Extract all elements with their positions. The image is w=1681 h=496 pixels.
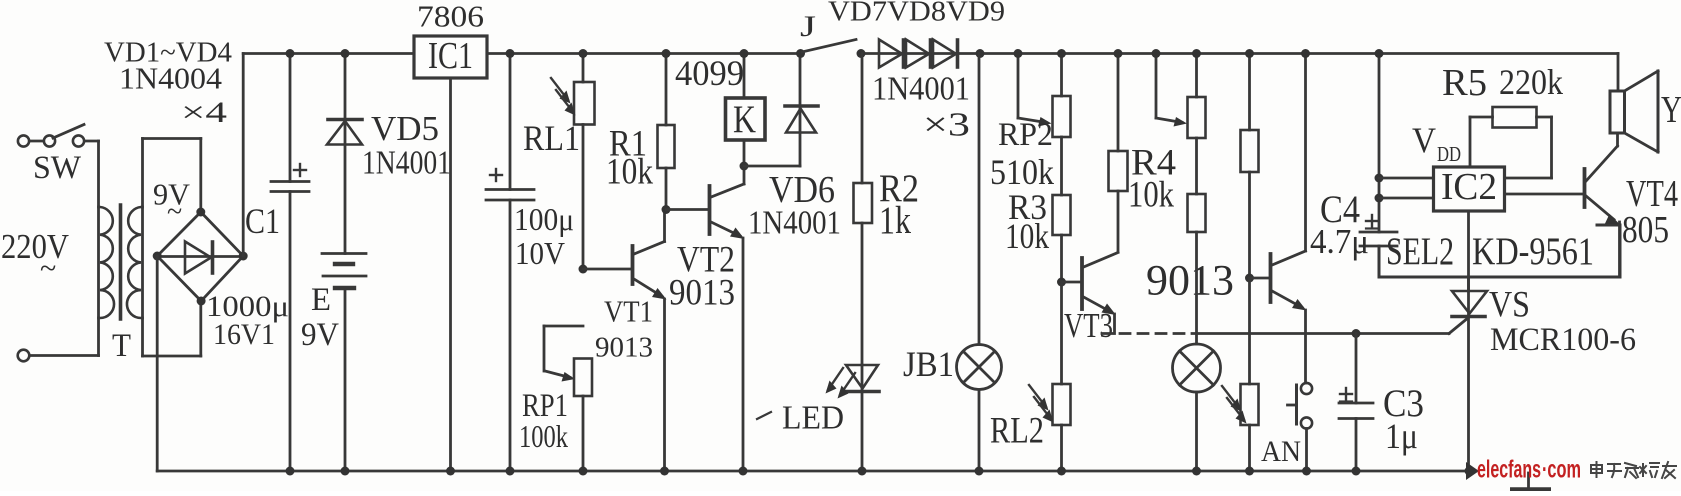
junction R3 bottom node	[1057, 278, 1066, 287]
capacitor 100u	[486, 54, 534, 472]
junction K top rail	[740, 49, 749, 58]
wire R1 node to VT2 base	[666, 208, 708, 211]
capacitor C1	[271, 54, 309, 472]
svg-text:VS: VS	[1489, 285, 1530, 326]
wire R5 right to IC2 pin	[1505, 117, 1552, 178]
label 9V secondary	[153, 177, 191, 228]
junction VT1 emitter bus	[660, 467, 669, 476]
svg-text:9V: 9V	[301, 317, 339, 353]
wire SW to transformer primary top	[85, 141, 99, 207]
label 10V	[515, 235, 565, 271]
wire K to VD6	[744, 165, 800, 168]
svg-text:4.7μ: 4.7μ	[1310, 222, 1369, 261]
label Y	[1661, 89, 1681, 131]
wire secondary top to bridge top	[143, 139, 201, 213]
battery E	[322, 254, 366, 472]
svg-text:SW: SW	[33, 150, 82, 186]
svg-text:E: E	[311, 282, 331, 318]
svg-text:1N4001: 1N4001	[748, 205, 841, 242]
label VT3	[1064, 306, 1113, 345]
label R4	[1131, 143, 1176, 184]
resistor R2	[854, 54, 873, 366]
junction C1 bus	[286, 467, 295, 476]
diode VD6	[785, 54, 818, 167]
label RL1	[523, 118, 580, 158]
label VD6 1N4001	[748, 205, 841, 242]
svg-text:220V: 220V	[1, 227, 69, 266]
LED	[826, 365, 880, 471]
junction bridge left vertex	[153, 252, 162, 261]
relay K box	[726, 54, 766, 167]
svg-text:JB1: JB1	[903, 344, 954, 384]
svg-text:~: ~	[167, 197, 182, 228]
svg-text:IC2: IC2	[1441, 166, 1497, 208]
junction RL2b bus	[1245, 467, 1254, 476]
svg-text:KD-9561: KD-9561	[1472, 230, 1594, 273]
junction bus right end	[1465, 462, 1480, 480]
wire R5 left to IC2 top	[1470, 117, 1493, 167]
transformer T primary winding	[99, 207, 115, 318]
label VT1	[604, 294, 653, 329]
label C3 plus	[1340, 388, 1352, 402]
label VDD	[1412, 120, 1461, 166]
label 100u	[514, 201, 574, 237]
junction IC2 pin lower	[1375, 194, 1384, 203]
wire IC2 output down	[1467, 211, 1470, 291]
speaker Y	[1610, 71, 1658, 152]
wire top rail	[243, 52, 1618, 55]
svg-text:T: T	[112, 328, 131, 364]
label R4 10k	[1128, 175, 1174, 216]
label VD6	[769, 169, 835, 211]
lamp channel2	[1173, 344, 1221, 471]
svg-text:1μ: 1μ	[1385, 416, 1418, 456]
transistor VT3	[1082, 253, 1118, 334]
label VD5 1N4001	[362, 145, 451, 182]
label VT2 9013	[669, 273, 735, 314]
svg-text:J: J	[800, 10, 816, 43]
label R5 220k	[1499, 62, 1563, 102]
junction pot2 wiper rail	[1152, 49, 1161, 58]
svg-text:K: K	[733, 98, 756, 141]
svg-text:805: 805	[1622, 209, 1669, 251]
svg-text:MCR100-6: MCR100-6	[1490, 322, 1636, 358]
svg-text:10k: 10k	[1128, 175, 1174, 216]
photoresistor channel2	[1222, 384, 1259, 471]
junction bridge top vertex	[196, 208, 205, 217]
label VT4 805	[1622, 209, 1669, 251]
junction K bottom node	[740, 162, 749, 171]
junction RP1 bus	[579, 467, 588, 476]
label C1 plus	[294, 164, 306, 176]
svg-text:VT1: VT1	[604, 294, 653, 329]
junction R4 top rail	[1114, 49, 1123, 58]
resistor R4	[1109, 54, 1128, 253]
svg-text:100k: 100k	[519, 418, 568, 454]
transformer T core	[119, 205, 123, 319]
svg-text:9013: 9013	[669, 273, 735, 314]
transistor VT2	[710, 166, 745, 471]
label 100u plus	[490, 169, 502, 181]
label RP2	[998, 117, 1053, 153]
transistor channel2	[1271, 54, 1307, 384]
diode VD8	[906, 40, 931, 68]
lamp JB1	[957, 54, 1002, 472]
label R5	[1442, 62, 1487, 104]
wire rail corner to speaker	[1617, 54, 1620, 92]
chip IC2 box	[1434, 166, 1505, 211]
label 7806	[417, 0, 484, 34]
label C1	[245, 201, 280, 241]
label R3	[1008, 187, 1047, 227]
resistor R3	[1053, 195, 1071, 282]
svg-text:220k: 220k	[1499, 62, 1563, 102]
label RP2 510k	[990, 152, 1054, 192]
label VD7VD8VD9	[828, 0, 1005, 27]
label VD chain x3	[923, 107, 970, 144]
wire IC2 pin lower	[1379, 197, 1434, 200]
label C4 value	[1310, 222, 1369, 261]
label VD5	[371, 109, 439, 148]
label RL2	[990, 411, 1044, 452]
svg-text:RP2: RP2	[998, 117, 1053, 153]
svg-text:1N4004: 1N4004	[119, 61, 223, 96]
label C3	[1383, 382, 1424, 425]
junction VT2 emitter bus	[739, 467, 748, 476]
label KD-9561	[1472, 230, 1594, 273]
svg-text:RL2: RL2	[990, 411, 1044, 452]
junction C1 top rail	[286, 49, 295, 58]
label VT2	[677, 240, 735, 281]
junction IC2 pin upper	[1375, 174, 1384, 183]
wire bottom bus	[157, 470, 1469, 473]
resistor R1	[658, 54, 675, 210]
watermark chinese glyphs	[1591, 462, 1676, 478]
wire secondary bottom to bridge bottom	[143, 301, 201, 356]
label VD chain 1N4001	[872, 71, 970, 108]
switch SW pivot circle 2	[44, 135, 55, 146]
label VS	[1489, 285, 1530, 326]
label AN	[1261, 435, 1301, 468]
resistor R5	[1493, 107, 1537, 128]
regulator IC1 7806 box	[414, 35, 487, 78]
junction RP2 wiper rail	[1014, 49, 1023, 58]
svg-text:9013: 9013	[1146, 258, 1234, 305]
svg-text:100μ: 100μ	[514, 201, 574, 237]
label C1 value 16V1	[213, 318, 275, 351]
diode VD7	[879, 40, 904, 68]
label E 9V	[301, 317, 339, 353]
svg-text:Y: Y	[1661, 89, 1681, 131]
junction transistor2 collector rail	[1301, 49, 1310, 58]
label 1N4004	[119, 61, 223, 96]
switch J lever	[802, 40, 856, 53]
label C3 1u	[1385, 416, 1418, 456]
transistor VT4	[1585, 133, 1621, 277]
photoresistor RL2	[1029, 384, 1071, 471]
wire R3 node to VT3 base	[1062, 281, 1081, 284]
junction res2 top rail	[1245, 49, 1254, 58]
wire base node to transistor2	[1250, 277, 1270, 280]
svg-text:IC1: IC1	[428, 35, 473, 77]
wire bridge plus up to rail	[242, 54, 245, 257]
svg-text:510k: 510k	[990, 152, 1054, 192]
wire RP1 wiper loop	[544, 326, 583, 382]
svg-text:elecfans: elecfans	[1477, 456, 1541, 484]
capacitor C4	[1360, 232, 1397, 249]
svg-text:RL1: RL1	[523, 118, 580, 158]
junction VD6 top rail	[796, 49, 805, 58]
wire SW terminal1 to pivot	[30, 140, 44, 143]
junction C3 bus	[1352, 467, 1361, 476]
svg-text:1N4001: 1N4001	[362, 145, 451, 182]
switch SW lever	[53, 125, 84, 139]
junction channel2 base node	[1245, 274, 1254, 283]
wire bridge minus down to bus	[156, 256, 159, 471]
svg-text:AN: AN	[1261, 435, 1301, 468]
junction gate line C3 node	[1352, 329, 1361, 338]
transformer T secondary winding	[127, 207, 143, 318]
photoresistor RL1	[551, 54, 595, 270]
switch SW terminal circle 1	[18, 135, 29, 146]
junction pot2 top rail	[1192, 49, 1201, 58]
potentiometer channel2	[1188, 54, 1206, 195]
ground symbol	[1512, 473, 1549, 489]
label VS MCR100-6	[1490, 322, 1636, 358]
svg-text:1N4001: 1N4001	[872, 71, 970, 108]
svg-text:10k: 10k	[1005, 216, 1049, 256]
label LED	[757, 400, 844, 437]
wire primary bottom to input terminal	[30, 318, 99, 356]
switch SW contact circle 3	[73, 135, 84, 146]
svg-text:9013: 9013	[595, 331, 653, 363]
wire gate line solid	[1197, 318, 1469, 334]
junction VD5 top rail	[341, 49, 350, 58]
label C4	[1320, 188, 1360, 231]
transformer T label	[112, 328, 131, 364]
svg-text:LED: LED	[782, 400, 844, 437]
junction VDD rail	[1375, 49, 1384, 58]
pushbutton AN	[1288, 383, 1313, 471]
label VT1 9013	[595, 331, 653, 363]
svg-text:4099: 4099	[675, 53, 744, 93]
junction RP2 top rail	[1057, 49, 1066, 58]
label E	[311, 282, 331, 318]
wire RL1 to VT1 base	[583, 268, 631, 271]
label VT3 9013	[1146, 258, 1234, 305]
svg-text:~: ~	[40, 252, 56, 285]
switch SW label	[33, 150, 82, 186]
wire base node down to RL2b	[1248, 278, 1251, 384]
diode VD5	[327, 54, 362, 254]
svg-text:7806: 7806	[417, 0, 484, 34]
junction LED bus	[858, 467, 867, 476]
wire pot2 wiper	[1156, 54, 1187, 127]
junction 100u top rail	[506, 49, 515, 58]
wire VT3 emitter dashed link	[1102, 332, 1197, 335]
svg-text:V: V	[1412, 120, 1436, 160]
junction RL1 top rail	[579, 49, 588, 58]
resistor channel2 divider	[1188, 194, 1206, 344]
label VT4	[1626, 173, 1678, 215]
label R1 10k	[606, 152, 653, 193]
label J	[800, 10, 816, 43]
potentiometer RP1	[574, 359, 592, 472]
svg-text:10V: 10V	[515, 235, 565, 271]
wire IC2 pin upper	[1379, 177, 1434, 180]
svg-text:C1: C1	[245, 201, 280, 241]
label R2 1k	[879, 199, 911, 242]
svg-text:VT3: VT3	[1064, 306, 1113, 345]
capacitor C3	[1339, 334, 1373, 472]
svg-text:·com: ·com	[1542, 456, 1581, 484]
diode VD9	[933, 40, 958, 68]
watermark elecfans.com	[1477, 456, 1581, 484]
label x4	[181, 96, 227, 129]
wire VDD drop	[1378, 54, 1381, 233]
label C1 value 1000u	[206, 290, 289, 323]
svg-text:×4: ×4	[181, 96, 227, 129]
svg-text:R5: R5	[1442, 62, 1487, 104]
wire IC1 ground pin	[449, 78, 452, 471]
wire R3 node down to RL2	[1060, 282, 1063, 384]
svg-text:DD: DD	[1437, 142, 1461, 166]
potentiometer RP2	[1053, 54, 1071, 196]
thyristor VS	[1452, 277, 1487, 471]
label RP1	[522, 388, 568, 424]
node 220V AC input label	[1, 227, 69, 285]
svg-text:VD7VD8VD9: VD7VD8VD9	[828, 0, 1005, 27]
junction J contact	[857, 49, 866, 58]
label RP1 100k	[519, 418, 568, 454]
wire IC2 to VT4 base	[1505, 193, 1584, 196]
module SEL2 KD-9561 box	[1379, 225, 1620, 277]
junction RL1 base node	[579, 265, 588, 274]
junction R1 bottom node	[662, 205, 671, 214]
label VD1~VD4	[104, 36, 232, 68]
junction IC1 ground bus	[446, 467, 455, 476]
label R2	[879, 167, 919, 210]
node input terminal circle bottom	[18, 350, 30, 362]
label JB1	[903, 344, 954, 384]
svg-text:16V1: 16V1	[213, 318, 275, 351]
label 4099	[675, 53, 744, 93]
junction RL2 bus	[1057, 467, 1066, 476]
junction VD9 cathode rail	[976, 49, 985, 58]
resistor channel2 base feed	[1241, 54, 1259, 279]
junction bridge bottom vertex	[197, 297, 206, 306]
svg-text:×3: ×3	[923, 107, 970, 144]
label R3 10k	[1005, 216, 1049, 256]
transistor VT1	[633, 210, 667, 472]
junction R1 top rail	[662, 49, 671, 58]
junction bridge right vertex	[239, 252, 248, 261]
bridge rectifier inner diode	[157, 242, 243, 274]
label SEL2	[1386, 230, 1454, 273]
junction AN bus	[1302, 467, 1311, 476]
junction 100u bus	[506, 467, 515, 476]
wire RP2 wiper	[1018, 54, 1052, 127]
label R1	[609, 124, 647, 165]
junction E bus	[341, 467, 350, 476]
svg-text:VD5: VD5	[371, 109, 439, 148]
label C4 plus	[1366, 215, 1378, 229]
junction lamp2 bus	[1192, 467, 1201, 476]
bridge rectifier VD1-VD4 diamond	[157, 212, 243, 301]
junction JB1 bus	[975, 467, 984, 476]
svg-text:1k: 1k	[879, 199, 911, 242]
svg-text:SEL2: SEL2	[1386, 230, 1454, 273]
svg-text:10k: 10k	[606, 152, 653, 193]
